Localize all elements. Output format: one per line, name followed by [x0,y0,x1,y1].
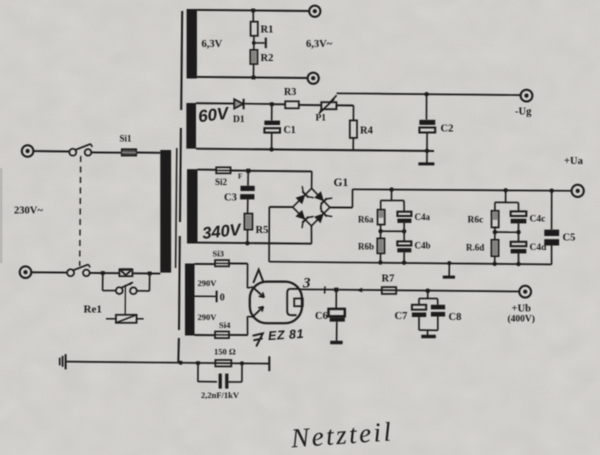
svg-text:R3: R3 [284,87,296,98]
wire cathode output [299,289,520,291]
wire hold branch right [137,290,150,292]
transformer secondary winding 290V [185,264,195,336]
wire ground mid rail [269,262,551,265]
capacitor C3 [240,186,255,200]
resistor R3 [285,101,299,108]
wire 340V top a [198,169,217,171]
wire C2 bottom [426,133,428,151]
wire C4b bottom [403,252,405,262]
terminal 6,3V top [309,6,320,17]
svg-text:C4c: C4c [530,215,546,225]
wire C5 top [551,191,553,230]
node rail d right [516,262,520,266]
wire coil stub right [137,318,144,320]
capacitor C6 [329,309,345,322]
resistor 150ohm [215,360,231,366]
node C1 top junction [270,102,274,106]
center tap wire [195,295,216,297]
svg-text:C7: C7 [395,311,408,322]
terminal -Ug [521,90,533,102]
arrow mark on output wire [356,288,362,293]
node C6 junction [334,288,338,292]
wire hold branch left [103,290,116,292]
wire Si1 to primary [136,152,160,154]
wire R4 bottom [352,138,354,151]
switch S1a [69,144,92,156]
svg-text:P1: P1 [316,114,327,124]
label R4 [360,126,374,137]
svg-text:290V: 290V [198,278,218,288]
title Netzteil handwritten [289,416,394,453]
wire C2 top [426,94,428,119]
wire group a drop [391,190,393,201]
svg-text:C4b: C4b [415,241,431,251]
transformer secondary winding 60V [186,103,196,149]
tube anode 1 lead [247,287,252,288]
node +Ua rail junction C5 [550,189,554,193]
tube anode 1 [253,287,265,297]
wire R6b top [380,231,382,238]
wire cap branch bottom right [228,381,242,383]
svg-text:C5: C5 [563,233,576,244]
tube anode 2 [253,307,264,317]
wire mid node a [381,230,405,232]
switch Re1b holding contact [116,282,137,294]
svg-text:6,3V~: 6,3V~ [306,39,333,50]
wire ground stub [448,263,450,276]
node mid a left [378,229,382,233]
resistor R6c [492,211,499,228]
relay link line [124,285,126,315]
tube EZ81 envelope [250,282,302,324]
svg-text:Re1: Re1 [84,304,102,316]
wire plus riser [351,189,353,207]
node junction R2 bottom [252,76,256,80]
resistor R6a [378,210,385,225]
label Re1 [84,304,102,316]
node relay branch right [148,272,152,276]
node mid c right [516,230,520,234]
chassis ground symbol [59,354,67,369]
label R3 [284,87,296,98]
node rail b right [402,261,406,265]
label pin 3 handwritten [302,276,311,292]
node core ground junction [179,361,183,365]
label C4d [530,243,548,253]
relay coil Re1 [116,315,137,323]
wire node to bridge top [248,170,311,173]
wire Si3 to corner [229,262,248,264]
wire C7C8 drop [427,291,429,299]
label C4b [415,241,431,251]
wire C3 to R5 [247,199,249,213]
node +Ua rail junction a [389,187,393,191]
wire R5 bottom [246,230,248,244]
terminal 6,3V bottom [308,73,319,84]
label 0 [220,293,225,304]
svg-text:230V~: 230V~ [14,206,43,217]
svg-text:0: 0 [220,293,225,304]
resistor R6b [377,238,384,253]
transformer primary winding (230V) [160,150,171,273]
wire R1 top stub [252,10,254,21]
node 340V top junction [246,169,250,173]
svg-text:C1: C1 [284,125,296,136]
switch S1b [67,264,90,276]
svg-text:R7: R7 [382,274,395,285]
wire R6d top [494,232,496,240]
label EZ 81 handwritten [268,327,305,343]
wire contact to primary [132,272,160,274]
bridge rectifier G1 [293,186,333,228]
svg-text:R.6d: R.6d [466,243,484,253]
wire cap branch right riser [241,363,243,382]
wire R4 top [352,106,354,121]
capacitor C4d [511,242,527,254]
label 2,2nF/1kV [201,390,240,400]
diode D1 [234,99,243,109]
wire mains top a [33,150,69,152]
wire C3 top [247,171,249,186]
node junction R1 top [251,9,255,13]
wire C4a top [403,201,405,212]
wire plate1 drop [246,264,248,288]
label R7 [382,274,395,285]
svg-text:Si1: Si1 [120,134,133,144]
wire 60V top a [196,102,234,104]
terminal mains bottom [20,266,32,278]
wire group c split [495,201,519,203]
wire Si4 to corner [229,334,248,336]
wire 6,3V bottom [197,77,308,78]
node ground stub [447,261,451,265]
ground bar below C2 [418,162,434,165]
svg-text:C8: C8 [449,312,462,323]
wire C4c bottom [518,223,520,232]
svg-text:Si3: Si3 [213,249,224,259]
wire tap stub [254,42,265,44]
wire 6,3V top [197,10,310,11]
wire group a split [381,199,404,201]
tube pin seal square [294,299,303,307]
label F [238,173,242,181]
label R6a [358,215,374,225]
capacitor 2,2nF [219,374,229,389]
svg-text:Si2: Si2 [215,177,228,187]
svg-text:R5: R5 [256,225,269,236]
capacitor C2 [419,120,435,133]
wire 340V bottom rail [198,243,312,244]
capacitor C1 [264,121,280,133]
capacitor C5 [544,230,559,246]
wire mains bottom a [31,271,67,273]
node 150ohm right junction [240,361,244,365]
node tap between R1,R2 [252,41,256,45]
terminal mains top [22,145,34,157]
terminal +Ub [519,286,531,298]
label 400V [508,314,535,325]
wire minus drop [268,207,270,262]
capacitor C4c [511,211,527,223]
label C4a [415,212,431,222]
wire C8 bottom [437,317,439,331]
label Si2 [215,177,228,187]
svg-text:R6b: R6b [358,242,374,252]
wire switch to Si1 [91,151,122,153]
label +Ua [564,156,584,167]
wire node to R3 [272,103,285,105]
node mid c left [493,230,497,234]
svg-text:C4a: C4a [415,212,431,222]
node rail d left [493,262,497,266]
wire D1 to node [244,103,272,105]
label 60V handwritten [197,104,231,127]
svg-text:EZ 81: EZ 81 [268,327,305,343]
label 150ohm [214,347,236,357]
wire Si2 to node [231,170,249,172]
wire C4d top [518,232,520,242]
node C2 bottom junction [425,149,429,153]
label pin 1 handwritten [254,270,264,283]
fuse Si2 [216,167,230,173]
transformer core [176,11,183,363]
label C8 [449,312,462,323]
label R6d [466,243,484,253]
node relay branch left [101,271,105,275]
center tap bar [216,291,218,303]
svg-text:R1: R1 [261,25,274,36]
svg-text:C2: C2 [441,124,454,135]
svg-text:2,2nF/1kV: 2,2nF/1kV [201,390,240,400]
resistor R1 [251,22,258,36]
ground bar below C7C8 [421,335,436,338]
node C7 C8 junction [426,289,431,294]
wire hold branch left drop [102,273,104,291]
label 340V handwritten [201,221,243,243]
transformer secondary winding 6,3V [187,9,197,79]
wire R6c top [494,202,496,211]
wire plate2 riser [246,317,248,336]
svg-text:R2: R2 [261,53,274,64]
wire R6b bottom [379,253,381,262]
svg-text:R4: R4 [360,126,374,137]
resistor R7 [382,287,396,294]
label R6b [358,242,374,252]
resistor R6d [491,240,498,256]
wire C1 bottom [271,133,273,150]
svg-text:C6: C6 [315,311,328,322]
wire R6a bottom [380,225,382,232]
ground bar below C6 [330,341,342,344]
wire R2 to bottom [253,64,255,77]
svg-text:D1: D1 [233,115,245,125]
label 6,3V [202,39,223,50]
wire coil stub left [106,318,116,320]
wire C7C8 join [419,329,438,331]
svg-text:60V: 60V [197,104,231,127]
svg-text:150 Ω: 150 Ω [214,347,236,357]
wire R6c bottom [494,227,496,232]
wire -Ug rail [337,93,521,95]
svg-text:G1: G1 [334,177,349,189]
wire C4b top [403,231,405,241]
node +Ua rail junction c [504,188,508,192]
wire R6a top [380,200,382,209]
wire hold branch right riser [149,273,151,291]
wire 290V top a [195,263,216,265]
label 290V upper [198,278,218,288]
wire C6 top [335,290,337,309]
wire R6d bottom [494,256,496,264]
label C5 [563,233,576,244]
wire bridge plus out [330,206,353,208]
capacitor C7 [412,305,426,317]
wire C1 top [271,104,273,120]
label pin 7 handwritten [253,333,262,345]
label R2 [261,53,274,64]
label 290V lower [198,312,218,322]
label C2 [441,124,454,135]
wire C4c top [517,203,519,212]
svg-text:(400V): (400V) [508,314,535,325]
tube cathode [287,289,298,315]
svg-text:+Ua: +Ua [564,156,584,167]
resistor R5 [244,214,252,230]
svg-text:F: F [238,173,242,181]
label C4c [530,215,546,225]
capacitor C8 [431,305,445,317]
node mid a right [402,229,406,233]
wire bridge bottom drop [310,226,312,244]
label Si4 [219,320,231,330]
capacitor C4a [397,212,411,223]
terminal +Ua [572,185,584,197]
label C3 [224,193,237,204]
fuse Si1 [122,149,136,155]
label G1 [334,177,349,189]
tube anode 2 lead [247,316,252,318]
svg-text:6,3V: 6,3V [202,39,223,50]
label -Ug [515,107,532,118]
wire bridge top drop [311,171,313,188]
wire cap branch left drop [197,363,199,382]
svg-text:290V: 290V [198,312,218,322]
wire C7 top [418,298,420,304]
node rail b left [378,260,382,264]
wire C2 ground stub [426,151,428,163]
wire C5 bottom [551,246,553,265]
wire C4d bottom [518,253,520,264]
left edge scan streak [0,168,2,263]
wire 60V bottom rail [196,149,434,151]
wire cap branch bottom left [198,381,217,383]
wire mid node c [495,231,519,233]
resistor R4 [350,120,357,137]
label C7 [395,311,408,322]
wire R3 to P1 [299,104,322,106]
relay contact Re1a [119,268,132,276]
wire C7 bottom [418,317,420,330]
label 6,3V~ [306,39,333,50]
label R5 [256,225,269,236]
wire C4a bottom [403,223,405,231]
node R5 bottom junction [245,241,249,245]
label 230V~ [14,206,43,217]
label R6c [468,216,484,226]
svg-text:R6a: R6a [358,215,374,225]
svg-text:R6c: R6c [468,216,484,226]
svg-text:+Ub: +Ub [512,304,532,315]
wire bridge minus out [269,206,292,208]
node 150ohm left junction [196,361,200,365]
fuse Si3 [215,260,229,266]
label P1 [316,114,327,124]
wire C7C8 split [419,297,438,299]
wire group c drop [505,190,507,202]
wire switch to contact [90,272,120,274]
svg-text:-Ug: -Ug [515,107,532,118]
label C6 [315,311,328,322]
svg-text:C3: C3 [224,193,237,204]
wire C7C8 ground stub [427,330,429,335]
label Si1 [120,134,133,144]
wire +Ua rail [353,189,572,191]
transformer secondary winding 340V [187,169,198,243]
wire ground rail [67,362,269,364]
wire C6 bottom [336,322,338,341]
label R1 [261,25,274,36]
ground bar mid rail [443,276,455,279]
potentiometer P1 [319,95,337,113]
wire C8 top [437,299,439,305]
wire R1 to R2 [253,36,255,50]
switch linkage dashed [80,156,81,266]
capacitor C4b [397,241,411,252]
ground rail end bar [268,356,270,371]
node C1 bottom junction [269,147,273,151]
node C2 top junction [424,92,428,96]
label +Ub [512,304,532,315]
wire 290V bottom a [195,334,216,336]
fuse Si4 [215,332,229,339]
label D1 [233,115,245,125]
tick mark on output wire [324,286,326,293]
wire P1 to R4 branch [336,104,353,106]
label Si3 [213,249,224,259]
resistor R2 [250,50,257,64]
label C1 [284,125,296,136]
tap terminal bar [265,38,267,49]
svg-text:Si4: Si4 [219,320,231,330]
